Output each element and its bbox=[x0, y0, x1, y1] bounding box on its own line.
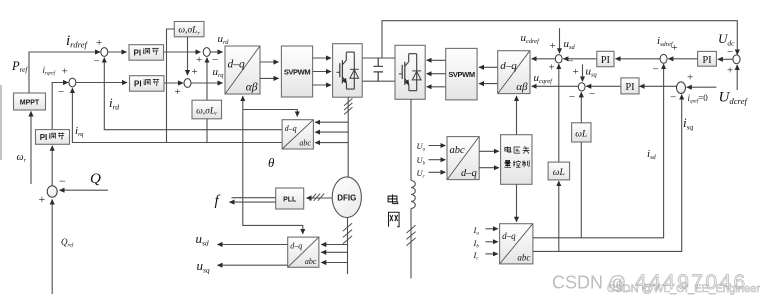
grid-side converter (IGBT bridge) bbox=[395, 45, 425, 99]
rotor-side converter (IGBT bridge) bbox=[333, 44, 363, 97]
svg-text:d–q: d–q bbox=[461, 168, 477, 179]
wire DFIG to PLL bbox=[307, 197, 333, 199]
wire SVPWM1 to converter b bbox=[313, 71, 331, 73]
svg-text:DFIG: DFIG bbox=[337, 194, 356, 203]
wire dq-ab to SVPWM1 lower bbox=[260, 77, 279, 79]
svg-text:PI: PI bbox=[134, 48, 142, 57]
wire u_sq output bbox=[218, 264, 288, 266]
summing junction SJ-B bbox=[578, 83, 585, 91]
wire SJ-E to PI-D bbox=[718, 58, 733, 60]
label grid 网 bbox=[388, 212, 400, 226]
wire i_sq feedback bbox=[533, 95, 682, 252]
wire i_sd feedback bbox=[533, 64, 664, 238]
block PI regulator 2 bbox=[130, 76, 165, 92]
wire SJ-B to dq-ab2 bbox=[532, 85, 579, 87]
dc link top rail bbox=[362, 57, 395, 59]
summing junction SJ-A bbox=[555, 55, 562, 63]
wire grid line lower bbox=[410, 209, 412, 279]
svg-text:−: − bbox=[59, 174, 66, 188]
wire u_sq stub down to SJ-B bbox=[582, 64, 584, 81]
three-phase marks DFIG-PLL bbox=[310, 194, 316, 201]
svg-text:MPPT: MPPT bbox=[20, 100, 40, 107]
dc link capacitor bbox=[374, 58, 384, 81]
wire vvc up to dq-ab2 bbox=[516, 96, 518, 135]
wire stator tap a bbox=[321, 244, 347, 246]
wire omega-L right to SJ-B bbox=[580, 92, 582, 122]
svg-text:−: − bbox=[727, 46, 733, 58]
label grid 电 bbox=[388, 194, 398, 203]
wire U_dcref stub bbox=[736, 65, 738, 90]
wire i_rq tap to omega-sigma-Lr lower bbox=[206, 119, 208, 143]
wire dq-ab to SVPWM1 upper bbox=[260, 61, 279, 63]
block omega-L right bbox=[572, 123, 591, 142]
svg-text:+: + bbox=[192, 66, 198, 78]
wire I_b stub bbox=[486, 241, 498, 243]
wire SVPWM1 to converter a bbox=[313, 57, 331, 59]
wire dq-ab2 to SVPWM2 lower bbox=[479, 83, 498, 85]
svg-text:abc: abc bbox=[450, 145, 466, 156]
transform d-q/abc box stator voltages bbox=[288, 237, 319, 267]
wire S3 to dq-ab box bbox=[210, 51, 222, 53]
svg-text:−: − bbox=[94, 56, 100, 68]
svg-text:PLL: PLL bbox=[283, 197, 297, 204]
wire rotor current tap b bbox=[315, 131, 348, 133]
svg-text:CSDN @WL_Of_EE_Engineer: CSDN @WL_Of_EE_Engineer bbox=[607, 283, 760, 295]
svg-text:abc: abc bbox=[299, 139, 311, 148]
wire I_a stub bbox=[486, 228, 498, 230]
left edge crop line bbox=[0, 85, 2, 160]
wire DFIG stator vertical bbox=[347, 218, 349, 275]
block PI regulator 3 bbox=[36, 130, 70, 145]
wire stator tap b bbox=[321, 251, 347, 253]
wire PLL f output lower bbox=[230, 201, 276, 203]
wire i_sd tap to omega-L right bbox=[580, 142, 582, 238]
wire U_b stub bbox=[429, 159, 446, 161]
svg-text:+: + bbox=[727, 65, 733, 77]
inductor grid filter bbox=[411, 181, 415, 209]
svg-text:ω,σLr: ω,σLr bbox=[196, 107, 218, 118]
transform abc to d-q box grid voltages bbox=[447, 137, 479, 180]
svg-text:+: + bbox=[39, 192, 46, 206]
svg-text:ωL: ωL bbox=[553, 168, 565, 178]
svg-text:d–q: d–q bbox=[502, 231, 516, 241]
svg-text:d–q: d–q bbox=[285, 124, 297, 133]
summing junction SJ-F bbox=[677, 82, 686, 94]
block PI A bbox=[597, 51, 614, 66]
wire PI-D to SJ-D bbox=[668, 58, 697, 60]
dc link bottom rail bbox=[362, 80, 395, 82]
svg-text:PI: PI bbox=[625, 82, 635, 93]
machine DFIG bbox=[332, 177, 361, 218]
three-phase marks rotor bbox=[344, 99, 352, 106]
wire SVPWM2 to converter b bbox=[427, 73, 447, 75]
block SVPWM rotor side bbox=[281, 46, 312, 97]
transform d-q to alpha-beta box grid bbox=[498, 51, 530, 94]
transform d-q to alpha-beta box rotor bbox=[225, 46, 260, 94]
svg-text:+: + bbox=[175, 86, 181, 98]
block SVPWM grid side bbox=[446, 48, 477, 100]
wire SVPWM1 to converter c bbox=[313, 84, 331, 86]
wire rotor current tap a bbox=[315, 121, 348, 123]
three-phase marks grid bbox=[406, 225, 415, 233]
wire PI3 up to S2 bbox=[52, 83, 68, 130]
wire S1 to PI reg 1 bbox=[108, 51, 127, 53]
svg-text:+: + bbox=[550, 40, 556, 52]
wire theta branch to rotor current box bbox=[243, 110, 297, 117]
svg-text:−: − bbox=[589, 88, 595, 100]
wire stator tap c bbox=[321, 262, 347, 264]
summing junction S3 u_rd bbox=[203, 48, 210, 57]
wire uv box to voltage vector control upper bbox=[479, 150, 499, 152]
summing junction S1 i_rd bbox=[101, 48, 108, 57]
wire Q_ref input bbox=[51, 200, 53, 294]
block omega-sigma-Lr lower bbox=[192, 100, 222, 119]
wire theta down to stator box bbox=[243, 198, 303, 234]
wire I_c stub bbox=[486, 253, 498, 255]
svg-text:−: − bbox=[670, 92, 676, 104]
wire grid line upper bbox=[410, 99, 412, 180]
wire SVPWM2 to converter c bbox=[427, 86, 447, 88]
svg-text:+: + bbox=[62, 66, 68, 78]
wire SJ-F to PI-B bbox=[640, 85, 677, 87]
svg-text:+: + bbox=[687, 72, 693, 84]
wire vvc down to current box bbox=[516, 184, 518, 221]
svg-text:abc: abc bbox=[517, 252, 530, 262]
summing junction S4 u_rq bbox=[184, 79, 191, 88]
wire dq-ab2 to SVPWM2 upper bbox=[479, 66, 498, 68]
svg-text:SVPWM: SVPWM bbox=[448, 70, 474, 79]
svg-text:+: + bbox=[96, 37, 102, 49]
svg-text:+: + bbox=[549, 62, 555, 74]
wire i_rq feedback bbox=[72, 88, 282, 142]
block omega-sigma-Lr upper bbox=[174, 22, 204, 37]
svg-text:ω,σLr: ω,σLr bbox=[178, 26, 200, 37]
wire U_a stub bbox=[429, 145, 446, 147]
svg-text:PI: PI bbox=[40, 133, 48, 142]
wire omega-sigma-Lr lower to S3 bbox=[206, 58, 208, 100]
node theta vertical bbox=[242, 96, 244, 198]
three-phase marks stator bbox=[343, 223, 352, 231]
wire PLL f output upper bbox=[232, 197, 276, 199]
wire Q junction to PI3 bbox=[51, 146, 53, 186]
wire S2 to PI reg 2 bbox=[76, 82, 127, 84]
wire SJ-A to dq-ab2 bbox=[532, 58, 556, 60]
wire omega-L left to SJ-A bbox=[558, 64, 560, 162]
wire i_qref stub bbox=[687, 86, 717, 88]
wire PI-A to SJ-A bbox=[563, 58, 596, 60]
block omega-L left bbox=[548, 162, 570, 180]
wire i_rd feedback bbox=[104, 58, 282, 130]
wire Q input bbox=[60, 189, 109, 191]
wire PI-B to SJ-B bbox=[586, 85, 621, 87]
block PI regulator 1 bbox=[129, 45, 164, 61]
wire rotor phases vertical bbox=[347, 97, 349, 177]
block PI B bbox=[621, 78, 639, 94]
svg-text:αβ: αβ bbox=[246, 82, 258, 94]
wire U_dc sense to top bbox=[382, 21, 737, 58]
svg-text:−: − bbox=[569, 91, 575, 103]
wire SVPWM2 to converter a bbox=[427, 59, 447, 61]
svg-text:SVPWM: SVPWM bbox=[284, 68, 310, 77]
svg-text:+: + bbox=[573, 66, 579, 78]
wire rotor current tap c bbox=[315, 142, 348, 144]
svg-text:d–q: d–q bbox=[290, 242, 302, 251]
transform d-q/abc box grid currents bbox=[500, 224, 533, 264]
block MPPT bbox=[14, 93, 46, 110]
svg-text:ωL: ωL bbox=[575, 130, 587, 140]
svg-text:−: − bbox=[212, 54, 218, 66]
summing junction S2 i_rq bbox=[69, 78, 76, 87]
svg-text:+: + bbox=[196, 54, 202, 66]
svg-text:abc: abc bbox=[305, 257, 317, 266]
summing junction SJ-D bbox=[660, 54, 667, 63]
wire U_c stub bbox=[429, 171, 446, 173]
wire uv box to voltage vector control lower bbox=[479, 167, 499, 169]
block PLL bbox=[276, 188, 304, 209]
svg-text:+: + bbox=[672, 42, 678, 54]
wire MPPT top to i_rdref bbox=[29, 52, 100, 93]
wire omega_r to MPPT bbox=[30, 112, 32, 185]
svg-text:d–q: d–q bbox=[500, 60, 517, 72]
transform d-q/abc box rotor currents bbox=[282, 120, 313, 149]
wire S4 to dq-ab box bbox=[191, 82, 223, 84]
svg-text:PI: PI bbox=[601, 55, 611, 66]
wire u_sd stub down to SJ-A bbox=[559, 28, 561, 53]
wire i_rq tap to omega-sigma-Lr upper input bbox=[167, 29, 175, 143]
svg-text:Q: Q bbox=[90, 171, 101, 187]
wire omega-sigma-Lr upper to S4 bbox=[187, 37, 189, 75]
svg-text:−: − bbox=[58, 86, 64, 98]
block PI D bbox=[698, 51, 717, 66]
wire SJ-D to PI-A bbox=[616, 58, 661, 60]
svg-text:αβ: αβ bbox=[516, 81, 528, 93]
wire PI2 to S4 bbox=[164, 82, 183, 84]
svg-text:PI: PI bbox=[134, 79, 142, 88]
wire u_sd output bbox=[218, 244, 288, 246]
wire i_sq tap to omega-L left bbox=[558, 181, 560, 251]
wire PI1 to S3 bbox=[164, 51, 201, 53]
summing junction SJ-E bbox=[733, 55, 740, 64]
svg-text:θ: θ bbox=[268, 155, 275, 170]
svg-text:d–q: d–q bbox=[228, 59, 246, 71]
block voltage vector control bbox=[501, 135, 532, 185]
svg-text:PI: PI bbox=[702, 55, 712, 66]
summing junction S5 Q bbox=[47, 186, 57, 198]
svg-text:−: − bbox=[653, 64, 659, 76]
